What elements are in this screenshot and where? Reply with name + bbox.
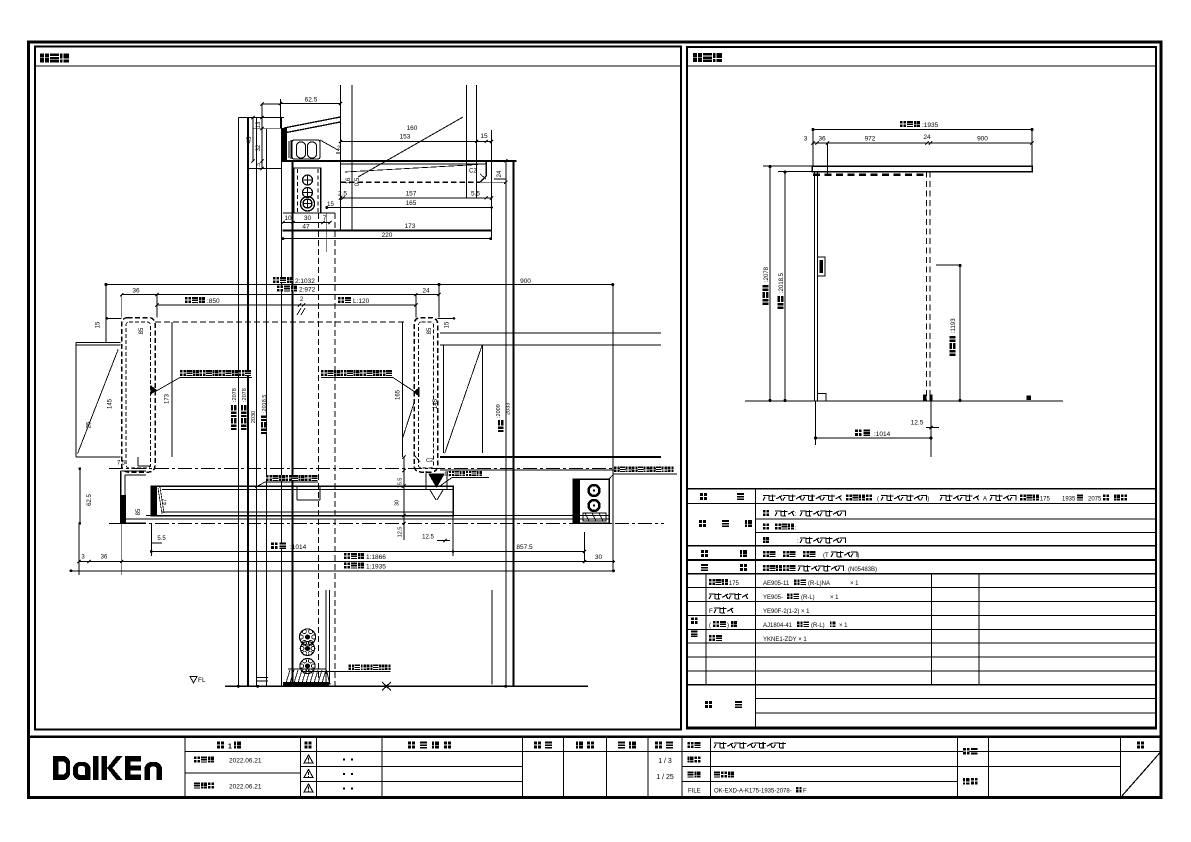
svg-text::1935: :1935 [922,122,939,129]
svg-text:5.5: 5.5 [471,191,480,198]
left panel title 断面図 [40,54,49,63]
svg-text::2078: :2078 [764,266,770,282]
svg-text:36: 36 [101,555,108,561]
flat rail base hatched [284,669,330,684]
screw cap mark right [414,388,419,396]
guide funnel at door end [425,471,427,489]
extension verticals for dims [156,295,158,318]
small ref ticks bottom [257,677,268,679]
svg-text:32: 32 [256,144,262,151]
door left edge front [814,172,816,402]
svg-text:0.5: 0.5 [355,177,361,186]
svg-text:2022.06.21: 2022.06.21 [229,758,262,765]
bracket bottom line [283,212,335,214]
svg-text:C2: C2 [469,169,477,175]
svg-text:OK-EXD-A-K175-1935-2078-: OK-EXD-A-K175-1935-2078- [714,789,792,795]
svg-text:15.5: 15.5 [398,478,404,489]
text 枠内幅2:972 [277,286,283,292]
svg-text:1935: 1935 [1062,497,1076,503]
header 作成 [618,742,625,749]
svg-text::1014: :1014 [290,544,307,551]
svg-text:165: 165 [396,389,402,400]
dim 220 [283,238,491,240]
svg-text:15: 15 [96,321,102,328]
svg-text:× 1: × 1 [850,581,859,587]
left panel title bar line [35,65,681,67]
header 確認 [576,742,583,749]
left wall plan section [76,341,121,343]
spec row saikoubu [763,524,769,530]
svg-text:): ) [727,623,729,629]
dim line 1032 and 900 [106,284,613,286]
door bar notch detail [296,486,298,500]
handle height dim 1193 [936,264,960,266]
front dim 3 36 972 24 900 [813,142,1032,144]
svg-text:12.5: 12.5 [398,527,404,538]
text 引残L:120 [338,297,344,303]
bottom detail guide rollers [325,590,327,684]
wall stud pair B verticals [465,85,467,198]
rotated labels 2009 2033 on wall lines [498,427,504,433]
center height dim line cluster [237,118,239,687]
dim verticals 173 165 [171,322,173,457]
svg-text:YE905-: YE905- [763,595,783,601]
bottom detail right vline [491,590,493,685]
text 枠外幅1:1935 [344,563,350,569]
title block top line [29,735,1162,738]
track top thick line [283,230,492,232]
svg-text:900: 900 [520,278,531,285]
svg-text::1193: :1193 [951,318,957,333]
door panel horizontal bar [151,486,453,516]
track double lines [146,515,609,517]
right floor end mark [1027,396,1032,401]
svg-text:1:1866: 1:1866 [366,554,386,561]
svg-text:30: 30 [395,500,401,506]
upper rail channel C2 band [281,160,516,162]
svg-text:857.5: 857.5 [516,544,533,551]
bottom center guide [923,395,927,402]
cap inner slant [320,140,339,151]
value series name title block [714,743,720,748]
svg-text:10: 10 [284,215,292,222]
text 明開口:850 [185,297,191,303]
left panel frame - section view [35,47,681,730]
dim line A door width 1014 and 857.5 [151,551,584,553]
svg-text:85: 85 [139,327,145,334]
svg-text:(: ( [877,497,879,503]
spec row 要式 value series name [763,496,769,501]
svg-text:): ) [857,553,859,559]
wall stud pair A verticals [339,85,341,231]
svg-text:173: 173 [405,223,416,230]
title block left date divider [185,772,301,774]
svg-text:24: 24 [923,134,931,141]
svg-text:2022.06.21: 2022.06.21 [229,784,262,791]
svg-text:36: 36 [132,288,140,295]
svg-text:62.5: 62.5 [87,494,93,506]
spec row 把手 [701,550,708,557]
svg-text:173: 173 [165,393,171,404]
svg-text:1 / 3: 1 / 3 [658,758,672,765]
row 制定日 2022.06.21 [194,757,200,763]
svg-text:7.5: 7.5 [256,163,262,171]
svg-text:5.5: 5.5 [157,536,166,542]
door top edge dashed open position [155,321,406,323]
svg-text:(: ( [709,623,711,629]
svg-text:FILE: FILE [688,789,701,795]
revision dots [343,759,345,761]
label mizunuki cap center [266,475,272,481]
sign col divider [958,766,1121,768]
left height dim 2078 [769,166,771,401]
svg-text:(R-L): (R-L) [811,623,825,629]
door right edge hidden dashed [926,172,928,402]
long wall line pair left [281,118,283,687]
rail hidden dashes [813,174,927,176]
label end stopper [614,467,620,473]
dim 160 153 15 [340,141,491,143]
door handle front [818,257,826,276]
spec row レールセット [709,594,715,599]
dim line 36 972 24 [122,294,439,296]
label 頁 [1137,742,1144,749]
mid dim vline 15.5 30 12.5 [403,457,405,540]
dim line C frame outer width 1935 [71,570,614,572]
mounting bracket with screws [294,168,321,213]
title block header row line [185,751,1161,753]
header 第1版 [217,742,224,749]
svg-text:2:972: 2:972 [299,287,316,294]
svg-text:L:120: L:120 [353,298,370,305]
dim 2.5 157 5.5 [340,197,491,199]
centerline dash-dot lower [109,522,664,524]
dim 24 right of band [480,181,506,183]
label 組員 [963,778,970,785]
svg-text:175: 175 [1040,497,1051,503]
svg-text::2018.5: :2018.5 [262,395,268,413]
svg-text:15: 15 [480,133,488,140]
front dim extensions [812,130,814,166]
svg-text::2018.5: :2018.5 [779,272,785,293]
spec table row lines [687,488,1156,490]
spec row 要式 label [700,493,707,500]
front dim outer width 1935 [813,129,1032,131]
svg-text:175: 175 [729,581,740,587]
right panel title 正面図 [693,53,702,62]
spec row 枠 olefin [763,537,769,543]
screw cap mark left [151,386,156,394]
label flat rail [349,665,355,671]
dim 62.5 rotated [79,469,81,524]
svg-text:900: 900 [977,136,988,143]
svg-text:YKNE1-ZDY × 1: YKNE1-ZDY × 1 [763,637,807,643]
floor level mark FL [190,677,197,684]
spec row 引手 [709,635,715,641]
value 図名 三面図 [714,772,720,778]
svg-text:F: F [709,609,713,615]
svg-text:(R-L)NA: (R-L)NA [808,581,830,587]
svg-text:13: 13 [256,121,262,128]
svg-text:C2: C2 [426,458,433,464]
svg-text:15: 15 [445,321,451,328]
rotated texts door heights [231,425,237,431]
spec row panel olefin [763,510,769,516]
svg-text::2009: :2009 [496,404,502,418]
left rotated dims 13 45 32 7.5 [261,104,263,169]
right panel frame - front view [687,47,1156,729]
svg-text:7: 7 [323,215,327,222]
svg-text:2.5: 2.5 [338,191,347,198]
svg-text:157: 157 [406,191,417,198]
svg-text:47: 47 [302,224,310,231]
svg-text::2078: :2078 [232,388,238,402]
svg-text::850: :850 [207,298,220,305]
spec label 仕上げ merged [699,520,706,527]
text 枠外幅2:1032 [273,277,279,283]
svg-text:85: 85 [427,327,433,334]
text 扉幅:1014 [271,543,278,550]
dim 15 left jamb [107,317,122,319]
svg-text:2075: 2075 [1088,497,1102,503]
svg-text:145: 145 [108,398,114,409]
svg-text:2030: 2030 [251,411,257,423]
svg-text:3: 3 [804,136,808,143]
label 図名 [688,772,694,778]
svg-text:× 1: × 1 [839,623,848,629]
long wall line pair right-center [505,161,507,687]
header 版 [305,742,312,749]
svg-text:24: 24 [422,288,430,295]
floor line [225,685,588,687]
svg-text:30: 30 [304,215,312,222]
svg-text::1014: :1014 [874,431,891,438]
revision rows lines [301,766,523,768]
row 改訂日 2022.06.21 [194,783,200,789]
right ext vline for top dims [491,130,493,239]
svg-text:A: A [983,497,987,503]
svg-text:36: 36 [818,136,826,143]
bottom frame channel left [121,470,147,472]
svg-text:YE90F-2(1-2) × 1: YE90F-2(1-2) × 1 [763,609,810,615]
DAIKEN logo [53,756,162,780]
title block verticals [184,737,186,798]
spec table column lines [754,489,756,728]
dim 165 [327,207,492,209]
page cell diagonal [1121,752,1161,798]
left jamb fixed frame dashed [122,318,155,472]
right wall plan section [440,332,661,334]
svg-text:62.5: 62.5 [305,97,318,104]
svg-text:AE905-11: AE905-11 [763,581,790,587]
svg-text:1 / 25: 1 / 25 [656,774,674,781]
bottom dim extension verticals [584,532,586,563]
name rows lines [682,766,958,768]
right panel title bar line [687,65,1156,67]
svg-text:1: 1 [228,744,232,751]
upper frame cap profile sloped [281,128,287,161]
label 品番 [688,757,694,763]
svg-text:FL: FL [198,677,206,684]
svg-text:1:1935: 1:1935 [366,564,386,571]
door bottom corner piece [818,394,827,402]
svg-text:): ) [927,497,929,503]
svg-text:160: 160 [407,125,418,132]
svg-text:25: 25 [87,421,93,428]
front floor line [745,400,1063,402]
head rail front view [812,166,1032,172]
svg-text:972: 972 [865,136,876,143]
revision warning triangles [304,755,313,763]
leader label screw cap left [180,370,186,376]
left height dim 2018.5 [784,172,786,402]
svg-text:12.5: 12.5 [422,535,434,541]
svg-text:F: F [803,789,807,795]
svg-text:2:1032: 2:1032 [295,278,315,285]
svg-text:153: 153 [400,134,411,141]
label 作者 [963,748,970,755]
svg-text:85: 85 [136,508,142,515]
svg-text::2078: :2078 [242,388,248,402]
svg-text:(N05483B): (N05483B) [848,567,877,573]
header 縮尺 [655,742,662,749]
svg-text:220: 220 [382,232,393,239]
dim line B frame inner width 1866 [79,561,614,563]
dim 10 30 7 47 [283,222,330,224]
svg-text:× 1: × 1 [830,595,839,601]
leader label screw cap right [321,370,327,376]
svg-text:7.5: 7.5 [117,461,126,467]
svg-text:AJ1804-41: AJ1804-41 [763,623,793,629]
svg-text:2033: 2033 [506,403,512,415]
spec 備考 label [705,701,712,708]
right jamb fixed frame dashed [414,318,437,472]
svg-text:(R-L): (R-L) [801,595,815,601]
dim line 850 2 120 [157,304,416,306]
svg-text:12.5: 12.5 [911,420,924,427]
front bottom dim 1014 [815,401,817,445]
svg-text:145: 145 [433,398,439,409]
header 改訂履歴 [408,742,415,749]
hanger roller housing [292,140,320,159]
svg-text:24: 24 [497,170,503,177]
header 承認 [534,742,541,749]
spec 品番 vertical label [691,618,698,625]
label 名称 [688,742,694,748]
break leader diagonal [358,117,463,177]
spec row 固定枠175 [709,579,715,585]
spec row 金具 [701,564,708,571]
svg-text:15: 15 [327,201,334,208]
dim 15 right jamb [438,317,454,319]
svg-text:16: 16 [346,177,352,184]
svg-text:47: 47 [163,498,169,505]
svg-text:30: 30 [595,554,603,561]
end stopper assembly [573,479,609,523]
text 枠内幅1:1866 [344,553,350,559]
centerline dash-dot upper [109,468,664,470]
svg-text:165: 165 [406,200,417,207]
hidden door lines dashed vertical [318,213,320,686]
svg-text:(T: (T [823,553,829,559]
break cross mark on floor [382,682,391,691]
